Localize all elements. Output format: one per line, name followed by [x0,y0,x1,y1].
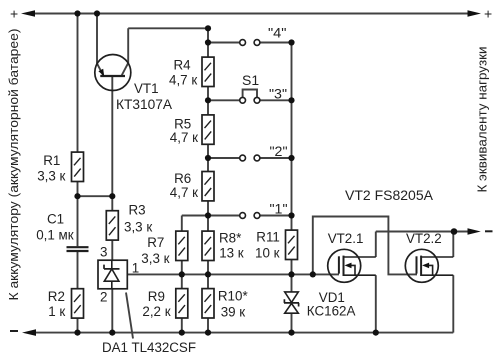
svg-text:4,7 к: 4,7 к [170,130,198,145]
svg-text:3,3 к: 3,3 к [141,251,169,266]
svg-text:4,7 к: 4,7 к [170,185,198,200]
svg-text:1: 1 [132,260,139,275]
svg-text:0,1 мк: 0,1 мк [36,228,74,243]
svg-text:R11: R11 [256,229,280,244]
svg-text:R8*: R8* [219,231,241,246]
svg-text:VT2.1: VT2.1 [328,231,364,246]
svg-text:"4": "4" [268,25,287,40]
svg-text:VT2 FS8205A: VT2 FS8205A [345,187,434,203]
svg-text:3: 3 [100,245,107,260]
svg-text:R2: R2 [48,289,65,304]
svg-text:+: + [10,5,18,21]
svg-text:R4: R4 [174,57,192,72]
svg-text:+: + [484,5,492,21]
svg-text:3,3 к: 3,3 к [124,220,152,235]
svg-text:"2": "2" [270,144,288,159]
svg-text:КТ3107А: КТ3107А [116,97,172,112]
svg-text:К аккумулятору (аккумуляторной: К аккумулятору (аккумуляторной батарее) [6,29,21,301]
svg-text:4,7 к: 4,7 к [169,72,197,87]
svg-text:1 к: 1 к [48,304,65,319]
svg-text:R1: R1 [43,153,60,168]
svg-text:R7: R7 [147,235,164,250]
svg-text:C1: C1 [47,212,64,227]
svg-text:"3": "3" [269,86,287,101]
svg-text:10 к: 10 к [255,246,280,261]
svg-text:2,2 к: 2,2 к [142,304,170,319]
svg-text:R6: R6 [174,171,191,186]
svg-text:R10*: R10* [218,289,248,304]
svg-text:3,3 к: 3,3 к [37,168,65,183]
svg-text:R3: R3 [129,203,146,218]
svg-text:39 к: 39 к [221,304,246,319]
svg-text:КС162А: КС162А [307,303,356,318]
svg-text:S1: S1 [242,72,259,88]
svg-text:R9: R9 [148,289,165,304]
svg-text:К эквиваленту нагрузки: К эквиваленту нагрузки [476,47,490,193]
svg-text:"1": "1" [270,201,288,216]
svg-text:DA1 TL432CSF: DA1 TL432CSF [102,340,196,355]
svg-text:2: 2 [100,290,107,305]
svg-text:13 к: 13 к [219,246,244,261]
svg-text:VT2.2: VT2.2 [406,231,442,246]
svg-text:VT1: VT1 [134,81,159,96]
